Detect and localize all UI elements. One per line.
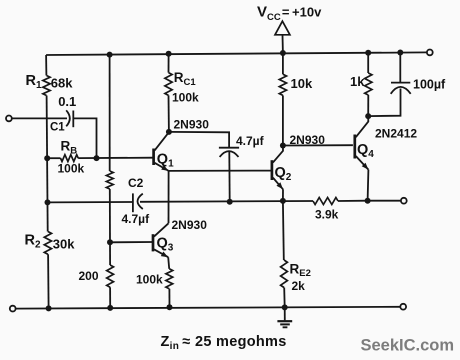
capacitor 100uf curved plate	[391, 87, 411, 94]
capacitor 4.7uf straight plate	[219, 147, 239, 149]
wire Q2 emitter to C2 row	[282, 189, 284, 201]
resistor 10k	[279, 74, 286, 95]
capacitor 4.7uf curved plate	[220, 151, 239, 157]
transistor Q1 base bar	[152, 149, 155, 166]
resistor bootstrap (unlabeled)	[106, 171, 113, 189]
ground symbol	[284, 307, 286, 320]
svg-text:2N930: 2N930	[174, 117, 210, 131]
wire top Vcc rail	[46, 52, 427, 55]
resistor RC1 100k	[165, 73, 172, 96]
capacitor 100uf straight plate	[391, 82, 410, 84]
transistor Q2 collector lead	[273, 146, 283, 163]
wire 100uf bottom to Q4 collector node	[368, 89, 400, 117]
resistor RB 100k	[61, 155, 79, 162]
wire input row to C1	[12, 117, 67, 119]
terminal input left	[6, 116, 12, 122]
svg-text:3.9k: 3.9k	[315, 208, 339, 222]
resistor RE2 2k	[281, 260, 288, 288]
wire C2 row to Q2 emitter node	[140, 200, 313, 203]
svg-text:100k: 100k	[58, 161, 85, 175]
junction rail / 100uf column	[397, 50, 403, 56]
transistor Q4 emitter lead with arrow	[356, 156, 369, 170]
transistor Q2 emitter lead with arrow	[273, 178, 283, 190]
transistor Q3 emitter lead with arrow	[154, 249, 168, 257]
junction rail / 1k column	[365, 50, 371, 56]
junction top rail / bootstrap column	[107, 52, 113, 58]
svg-text:2k: 2k	[292, 279, 306, 293]
junction bottom row / 200 column	[107, 305, 113, 311]
terminal input bottom left	[10, 306, 16, 312]
svg-text:Zin ≈ 25 megohms: Zin ≈ 25 megohms	[161, 334, 287, 352]
svg-text:100µf: 100µf	[413, 78, 446, 92]
wire Q1 emitter to Q2 base	[169, 170, 271, 172]
wire RB row to Q1 base	[78, 157, 152, 159]
svg-text:2N2412: 2N2412	[375, 127, 417, 141]
svg-text:0.1: 0.1	[58, 94, 76, 109]
capacitor C1 0.1 curved plate	[66, 110, 70, 126]
junction Q2 emitter / C2 row / RE2	[280, 198, 286, 204]
svg-text:100k: 100k	[136, 273, 163, 287]
wire 1k column upper	[367, 53, 369, 73]
wire RC1 column upper	[168, 54, 170, 73]
wire left column (R2 bottom to ground row)	[47, 254, 50, 308]
svg-text:200: 200	[79, 269, 99, 283]
junction divider node / C2 row	[45, 199, 51, 205]
wire Q2 collector to Q4 base	[283, 144, 353, 146]
capacitor C2 curved plate	[138, 194, 143, 209]
transistor Q3 base bar	[152, 234, 155, 251]
terminal output mid right	[401, 198, 407, 204]
capacitor C2 straight plate	[132, 193, 134, 212]
transistor Q1 emitter lead with arrow	[155, 163, 169, 171]
junction Q2 collector / Q4 base row	[280, 143, 286, 149]
junction bottom row / 100k column	[167, 304, 173, 310]
wire RE2 bottom to ground row	[283, 288, 286, 308]
svg-text:10k: 10k	[291, 76, 313, 91]
wire 3.9k to Q4 emitter node	[338, 200, 368, 202]
wire 100k bottom to ground row	[168, 289, 170, 308]
wire 10k column upper	[282, 53, 284, 74]
junction Q4 collector node	[365, 113, 371, 119]
wire Q3 base row	[110, 241, 152, 243]
junction bottom row / left column	[46, 305, 52, 311]
transistor Q3 collector lead	[154, 223, 169, 236]
junction R1-R2 divider / RB row	[44, 155, 50, 161]
transistor Q4 base bar	[353, 135, 356, 159]
wire 1k bottom to Q4 collector node	[367, 95, 369, 116]
junction bootstrap column / Q3 base row	[107, 239, 113, 245]
capacitor C1 straight plate	[72, 111, 74, 128]
resistor 100k (Q3 emitter)	[166, 269, 173, 289]
power Vcc symbol	[275, 21, 290, 35]
wire C2 row left	[48, 201, 133, 203]
transistor Q2 base bar	[271, 160, 274, 180]
resistor 3.9k	[313, 198, 338, 205]
svg-text:C2: C2	[128, 176, 144, 190]
wire 10k bottom to Q2 collector node	[282, 95, 284, 145]
transistor Q1 collector lead	[155, 132, 169, 150]
resistor 1k	[365, 73, 372, 95]
wire bootstrap column upper	[109, 55, 111, 171]
junction Q4 emitter / output row	[365, 198, 371, 204]
terminal Vcc rail right output	[427, 50, 433, 56]
wire bootstrap column to 200 resistor	[109, 242, 111, 265]
wire 100uf column upper	[399, 53, 401, 83]
resistor 200	[107, 265, 114, 287]
wire Q4 emitter down to output row	[367, 170, 370, 201]
svg-text:30k: 30k	[53, 237, 75, 252]
junction Q1 collector node	[166, 129, 172, 135]
wire bootstrap column to Q3 base node	[109, 189, 111, 242]
wire RE2 column upper	[282, 201, 285, 260]
svg-text:100k: 100k	[172, 91, 199, 105]
junction C1 feed / RB row	[94, 155, 100, 161]
junction 4.7uf / C2 row	[227, 199, 233, 205]
wire Q1 emitter down to Q3 collector	[168, 171, 170, 223]
wire Q3 emitter to 100k	[168, 257, 169, 269]
wire 200 bottom to ground row	[109, 287, 111, 308]
svg-text:4.7µf: 4.7µf	[236, 134, 265, 148]
junction bottom row / RE2 / ground	[282, 304, 288, 310]
svg-text:C1: C1	[50, 122, 65, 134]
wire left column upper (rail to R1)	[45, 55, 47, 76]
wire 4.7uf bottom to C2 row	[228, 152, 230, 202]
junction rail / RC1 column	[166, 51, 172, 57]
wire left column (R1 bottom to R2 top)	[47, 96, 48, 232]
wire Q1 collector node to 4.7uf cap	[169, 132, 229, 147]
svg-text:SeekIC.com: SeekIC.com	[361, 337, 455, 355]
resistor R2 30k	[44, 232, 51, 255]
terminal bottom right	[400, 304, 406, 310]
wire bottom ground row	[16, 307, 401, 309]
wire C1 right plate over and down to base node	[73, 118, 96, 158]
wire output row stub	[368, 200, 401, 202]
svg-text:1k: 1k	[350, 74, 365, 89]
junction rail / Vcc / 10k column	[280, 50, 286, 56]
wire RC1 bottom to Q1 collector node	[168, 95, 170, 131]
svg-text:2N930: 2N930	[172, 218, 208, 232]
transistor Q4 collector lead	[356, 116, 369, 137]
resistor R1 68k	[43, 76, 50, 96]
wire RB row left stub	[47, 157, 60, 159]
svg-text:68k: 68k	[51, 76, 73, 91]
svg-text:4.7µf: 4.7µf	[122, 212, 151, 226]
